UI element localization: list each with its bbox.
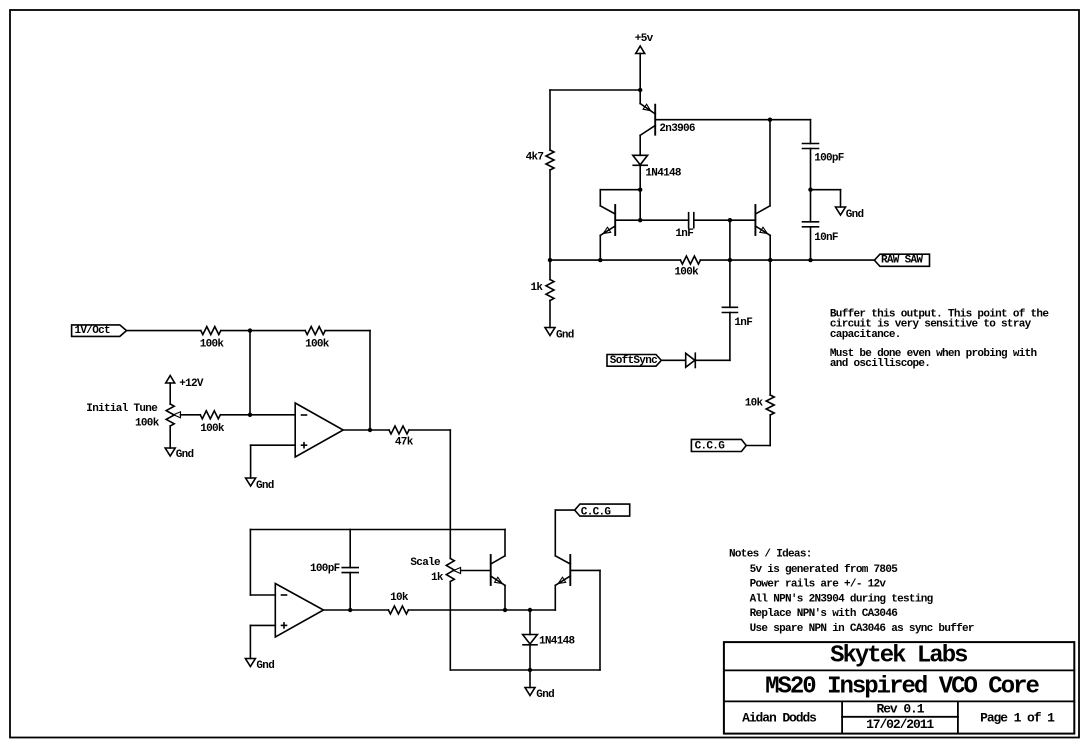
wire: [250, 330, 305, 332]
wire: [221, 330, 250, 332]
node +5v rail junction: [638, 88, 642, 92]
wire: [549, 170, 551, 260]
transistor Q5 2N3904: [569, 555, 571, 585]
node C2-Q3 junction: [728, 218, 732, 222]
svg-text:1V/Oct: 1V/Oct: [75, 325, 111, 337]
transistor Q2 2N3904: [614, 205, 616, 235]
node rail-left junction: [548, 258, 552, 262]
wire: [220, 414, 250, 416]
svg-text:100k: 100k: [200, 338, 225, 350]
ground: [525, 688, 535, 696]
svg-text:100k: 100k: [135, 418, 160, 430]
ground: [165, 448, 175, 456]
svg-text:Gnd: Gnd: [556, 330, 574, 342]
wire: [249, 625, 251, 658]
svg-text:4k7: 4k7: [526, 152, 544, 164]
svg-text:10k: 10k: [390, 592, 409, 604]
wire: [529, 645, 531, 670]
svg-text:+12V: +12V: [179, 378, 204, 390]
net flag C.C.G: [691, 439, 746, 451]
svg-text:Aidan Dodds: Aidan Dodds: [742, 711, 817, 726]
transistor Q4 2N3904: [490, 555, 492, 585]
wire: [369, 331, 371, 430]
svg-text:C.C.G: C.C.G: [581, 506, 612, 518]
node D3 junction: [528, 608, 532, 612]
potentiometer Scale 1k: [446, 559, 454, 582]
wire: [449, 430, 451, 559]
capacitor C4 10nF: [803, 221, 819, 223]
power +12V: [166, 376, 175, 384]
node integrator output junction: [348, 608, 352, 612]
node C3-C4 junction: [808, 188, 812, 192]
diode D2 sync: [686, 353, 695, 367]
wire: [251, 444, 296, 446]
svg-text:1nF: 1nF: [734, 317, 752, 329]
wire Q5 base: [570, 569, 600, 571]
potentiometer Initial Tune 100k: [166, 404, 174, 426]
wire: [639, 165, 641, 189]
svg-text:100k: 100k: [305, 338, 330, 350]
wire: [770, 119, 811, 121]
wire: [549, 260, 551, 279]
wire: [343, 429, 370, 431]
svg-text:Skytek Labs: Skytek Labs: [830, 643, 967, 670]
diode D3 1N4148: [523, 635, 538, 645]
capacitor C3 100pF: [803, 143, 819, 145]
wire: [350, 609, 388, 611]
capacitor C2 1nF: [688, 213, 690, 228]
svg-text:capacitance.: capacitance.: [830, 329, 901, 341]
svg-text:1k: 1k: [431, 572, 444, 584]
wire rail stub: [729, 220, 731, 260]
svg-text:C.C.G: C.C.G: [695, 441, 726, 453]
ground: [245, 659, 255, 667]
svg-text:Page 1 of 1: Page 1 of 1: [980, 711, 1055, 726]
svg-text:Gnd: Gnd: [256, 480, 274, 492]
svg-text:Initial Tune: Initial Tune: [86, 403, 158, 415]
node D1 cathode junction: [638, 188, 642, 192]
resistor 4k7: [546, 150, 554, 170]
wire: [810, 120, 812, 144]
wire: [250, 445, 252, 478]
resistor 1k: [546, 280, 554, 301]
svg-text:17/02/2011: 17/02/2011: [866, 717, 934, 732]
svg-text:Rev 0.1: Rev 0.1: [877, 702, 925, 717]
wire: [746, 445, 770, 447]
svg-text:Power rails are +/- 12v: Power rails are +/- 12v: [750, 579, 887, 591]
ground: [836, 207, 846, 215]
wire: [810, 227, 812, 260]
wire: [661, 359, 685, 361]
svg-text:Gnd: Gnd: [846, 209, 864, 221]
wire: [550, 89, 640, 91]
wire: [249, 331, 251, 415]
svg-text:47k: 47k: [395, 437, 414, 449]
wire integrator feedback top: [250, 529, 505, 531]
ground: [246, 478, 256, 486]
resistor R1 100k: [201, 327, 221, 335]
wire emitter rail: [550, 259, 680, 261]
svg-text:Notes / Ideas:: Notes / Ideas:: [729, 548, 812, 560]
node feedback junction: [368, 428, 372, 432]
wire: [169, 383, 171, 404]
wire: [555, 509, 574, 511]
node Q3 emitter rail junction: [768, 258, 772, 262]
svg-text:Gnd: Gnd: [176, 449, 194, 461]
node Q1 base - Q3 collector junction: [768, 118, 772, 122]
wire Q2 base: [615, 219, 688, 221]
svg-text:All NPN's 2N3904 during testin: All NPN's 2N3904 during testing: [750, 593, 933, 605]
wire: [639, 54, 641, 91]
svg-text:1N4148: 1N4148: [539, 635, 576, 647]
wire: [505, 609, 555, 611]
svg-text:2n3906: 2n3906: [659, 123, 695, 135]
diode D1 1N4148: [633, 155, 648, 165]
svg-text:RAW SAW: RAW SAW: [881, 254, 923, 266]
node diode-gnd junction: [528, 668, 532, 672]
resistor R5 10k: [766, 395, 774, 415]
net flag C.C.G: [575, 504, 630, 516]
wire: [810, 149, 812, 190]
wire: [529, 670, 531, 688]
svg-text:1N4148: 1N4148: [645, 168, 682, 180]
svg-text:10k: 10k: [745, 398, 764, 410]
wire: [695, 359, 730, 361]
svg-text:MS20 Inspired VCO Core: MS20 Inspired VCO Core: [765, 674, 1039, 701]
wire: [549, 90, 551, 150]
wire: [769, 260, 771, 395]
node Q2 base junction: [638, 218, 642, 222]
wire: [549, 301, 551, 328]
power +5v: [636, 46, 645, 54]
node rail junction: [728, 258, 732, 262]
node Q2 emitter rail junction: [598, 258, 602, 262]
svg-text:100pF: 100pF: [310, 563, 340, 575]
wire: [370, 429, 389, 431]
node C4 rail junction: [808, 258, 812, 262]
wire: [811, 189, 841, 191]
wire: [250, 414, 295, 416]
net flag 1V/Oct: [72, 325, 127, 337]
wire: [599, 570, 601, 670]
wire bottom rail: [450, 669, 600, 671]
resistor R2 100k: [305, 327, 325, 335]
wire: [250, 594, 275, 596]
net flag RAW SAW: [874, 254, 929, 266]
capacitor C1 100pF: [349, 530, 351, 568]
wire: [529, 610, 531, 635]
svg-text:100k: 100k: [674, 267, 699, 279]
wire: [729, 260, 731, 307]
svg-text:and oscilliscope.: and oscilliscope.: [830, 358, 930, 370]
svg-text:Gnd: Gnd: [536, 689, 554, 701]
transistor Q1 2n3906: [654, 105, 656, 135]
node Q4 emitter junction: [503, 608, 507, 612]
node summing junction: [248, 413, 252, 417]
wire: [127, 330, 201, 332]
wire: [324, 609, 351, 611]
wire: [639, 190, 641, 221]
svg-text:100pF: 100pF: [814, 152, 844, 164]
wire: [325, 330, 370, 332]
svg-text:5v is generated from 7805: 5v is generated from 7805: [750, 564, 899, 576]
wire: [599, 190, 601, 206]
wire: [249, 530, 251, 596]
capacitor C5 1nF: [722, 306, 737, 308]
wire Q3 collector: [769, 120, 771, 206]
svg-text:Gnd: Gnd: [256, 660, 274, 672]
op-amp U1: [295, 403, 343, 457]
title block frame: [724, 642, 1074, 734]
wire: [840, 190, 842, 207]
svg-text:SoftSync: SoftSync: [610, 355, 657, 367]
svg-text:1k: 1k: [531, 282, 544, 294]
wire: [729, 313, 731, 361]
svg-text:Scale: Scale: [410, 557, 441, 569]
wire: [250, 624, 275, 626]
resistor R4 100k: [680, 256, 700, 264]
net flag SoftSync: [607, 355, 661, 367]
svg-text:10nF: 10nF: [814, 232, 838, 244]
resistor R6 47k: [389, 426, 409, 434]
wire: [409, 429, 450, 431]
svg-text:+5v: +5v: [635, 33, 654, 45]
transistor Q3 2N3904: [754, 205, 756, 235]
node input junction: [248, 328, 252, 332]
wire: [810, 190, 812, 222]
wire: [694, 219, 756, 221]
svg-text:1nF: 1nF: [675, 228, 693, 240]
svg-text:Use spare NPN in CA3046 as syn: Use spare NPN in CA3046 as sync buffer: [750, 623, 974, 635]
svg-text:100k: 100k: [200, 423, 225, 435]
wire: [600, 189, 640, 191]
wire: [554, 510, 556, 556]
ground: [545, 328, 555, 336]
wire: [769, 415, 771, 446]
wire: [700, 259, 874, 261]
svg-text:Replace NPN's with CA3046: Replace NPN's with CA3046: [750, 608, 898, 620]
op-amp U2: [275, 584, 323, 638]
wire: [169, 426, 171, 448]
wire: [408, 609, 505, 611]
wire Q1 base: [655, 119, 770, 121]
resistor R3 100k: [200, 411, 220, 419]
wire: [449, 582, 451, 671]
resistor R7 10k: [388, 606, 408, 614]
